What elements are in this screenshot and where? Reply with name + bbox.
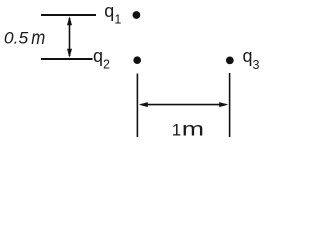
top reference line at q1 level	[41, 14, 96, 16]
left extension line below q2	[136, 74, 138, 138]
horizontal dimension arrowhead left	[139, 102, 148, 107]
charge q2 dot	[133, 56, 141, 64]
svg-text:m: m	[182, 119, 204, 138]
right extension line below q3	[229, 73, 231, 137]
svg-text:q2: q2	[93, 46, 110, 72]
bottom reference line at q2 level	[41, 58, 93, 60]
vertical dimension arrowhead top	[67, 16, 72, 25]
vertical dimension arrowhead bottom	[67, 49, 72, 58]
svg-text:0.5: 0.5	[4, 29, 29, 48]
svg-text:m: m	[31, 27, 45, 49]
charge q3 dot	[226, 57, 234, 65]
svg-text:1: 1	[172, 120, 181, 137]
charge q1 dot	[133, 11, 141, 19]
horizontal dimension arrowhead right	[219, 102, 228, 107]
svg-text:q1: q1	[104, 1, 121, 27]
vertical dimension arrow shaft (0.5 m spacing)	[69, 18, 71, 56]
svg-text:q3: q3	[243, 46, 260, 72]
horizontal dimension arrow shaft (1 m spacing)	[141, 104, 226, 106]
